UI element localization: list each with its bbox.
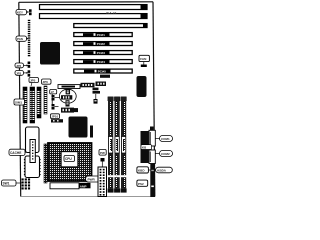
component U7 — [90, 126, 93, 138]
label JP3 — [15, 71, 28, 76]
jumper JP8 — [52, 94, 60, 106]
label JP10 — [51, 114, 60, 119]
svg-text:COM2: COM2 — [161, 152, 170, 156]
ISA slot 3 — [74, 24, 147, 28]
jumper JP3 pins — [28, 70, 31, 76]
oval label KBDA — [156, 167, 173, 173]
ISA slot 2 — [40, 14, 148, 19]
cache SRAM bar B — [30, 87, 35, 123]
component below battery — [66, 100, 70, 106]
svg-text:PWR: PWR — [88, 178, 96, 182]
svg-text:AMP: AMP — [80, 184, 87, 188]
black text labels PW1 PW2 — [81, 82, 107, 88]
svg-text:PAN: PAN — [17, 37, 23, 41]
svg-text:CACHE: CACHE — [10, 151, 21, 155]
CPU socket U5 — [48, 143, 92, 181]
cache SRAM bar D — [44, 86, 47, 114]
svg-text:PCI#3: PCI#3 — [97, 51, 105, 55]
svg-text:JP3: JP3 — [16, 71, 22, 75]
label PS2 — [137, 180, 148, 186]
svg-text:PCI#4: PCI#4 — [97, 60, 105, 64]
label J7 — [50, 90, 57, 95]
PCI slot 2 — [74, 41, 132, 46]
label KEYLOCK (top-left) — [16, 10, 29, 15]
board outline border — [19, 2, 155, 197]
PCI slot 5 — [74, 69, 132, 74]
svg-text:CPU: CPU — [65, 157, 72, 161]
header connector J14 (horizontal) — [58, 85, 80, 89]
oval label COM1 — [155, 136, 173, 142]
ISA slot 1 — [40, 5, 148, 10]
south bridge U2 — [69, 117, 88, 138]
svg-text:KB: KB — [142, 146, 146, 150]
label SW1 — [2, 180, 22, 186]
svg-text:FAN: FAN — [140, 57, 147, 61]
svg-text:PCI#2: PCI#2 — [97, 42, 105, 46]
fan header — [141, 65, 147, 68]
PCI slot 4 — [74, 59, 132, 64]
jumper grid SW1 — [22, 178, 31, 189]
battery BT1 — [61, 95, 72, 99]
VRM bar left of CPU socket — [44, 144, 47, 183]
label SIMM bank — [14, 99, 27, 105]
header strip over BIOS/cache — [30, 140, 35, 163]
label KBD — [137, 167, 156, 173]
bottom right edge connector — [150, 164, 155, 197]
BIOS chip U3 — [26, 127, 40, 153]
label PANEL — [16, 36, 28, 41]
I/O chip U6 — [137, 76, 147, 97]
svg-text:JP10: JP10 — [51, 115, 58, 119]
svg-text:PCI#5: PCI#5 — [98, 70, 106, 74]
pin header strip J1 — [28, 20, 31, 57]
label JP5 above bars — [29, 78, 39, 87]
svg-text:PW: PW — [100, 151, 105, 155]
jumper JP2 pins — [28, 62, 31, 68]
label FAN — [139, 55, 149, 64]
stem to jumper J13 — [95, 94, 97, 99]
label CACHE — [9, 149, 27, 155]
PCI slot 3 — [74, 50, 132, 55]
cache SRAM bar C — [37, 87, 41, 118]
svg-text:PS2: PS2 — [138, 182, 144, 186]
svg-text:JP6: JP6 — [43, 80, 49, 84]
label JP2 — [15, 63, 28, 68]
chipset U1 — [40, 42, 60, 65]
jumper JP9 — [52, 104, 59, 110]
svg-text:PCI#1: PCI#1 — [97, 33, 105, 37]
label JP6 above bars — [42, 79, 52, 84]
label on kb block — [141, 145, 152, 150]
jumper JP1 (2 pin) — [29, 9, 32, 15]
cache module U4 — [24, 156, 41, 178]
svg-text:SIM1: SIM1 — [15, 101, 22, 105]
header J11 — [51, 119, 63, 122]
crystal Y1 — [66, 90, 70, 95]
svg-text:SW1: SW1 — [3, 182, 10, 186]
oval label PW — [86, 176, 101, 182]
small component above SIMMs — [100, 75, 110, 78]
SIMM socket 3 — [121, 97, 127, 193]
battery circle — [59, 89, 76, 103]
keyboard connector block — [141, 127, 156, 164]
oval label COM2 — [155, 151, 173, 157]
label CPU — [64, 156, 75, 162]
svg-text:ISA #4: ISA #4 — [106, 11, 117, 15]
PCI slot 1 — [74, 32, 132, 37]
fan header pins — [101, 158, 105, 167]
svg-text:KBD: KBD — [138, 169, 145, 173]
cache SRAM bar A — [23, 87, 27, 123]
SIMM socket 2 — [114, 97, 120, 193]
svg-text:JP5: JP5 — [30, 78, 36, 82]
SIMM socket 1 — [108, 97, 114, 193]
svg-text:KBDA: KBDA — [157, 169, 166, 173]
svg-text:JP2: JP2 — [16, 64, 22, 68]
ZIF lever — [50, 183, 91, 189]
small parts under labels — [93, 88, 101, 94]
label FAN1 (power header) — [99, 150, 106, 156]
component TAG RAM — [61, 108, 78, 113]
jumper J13 — [94, 99, 98, 104]
svg-text:KEY: KEY — [17, 11, 23, 15]
power connector J12 — [98, 167, 107, 197]
svg-text:COM1: COM1 — [161, 137, 170, 141]
